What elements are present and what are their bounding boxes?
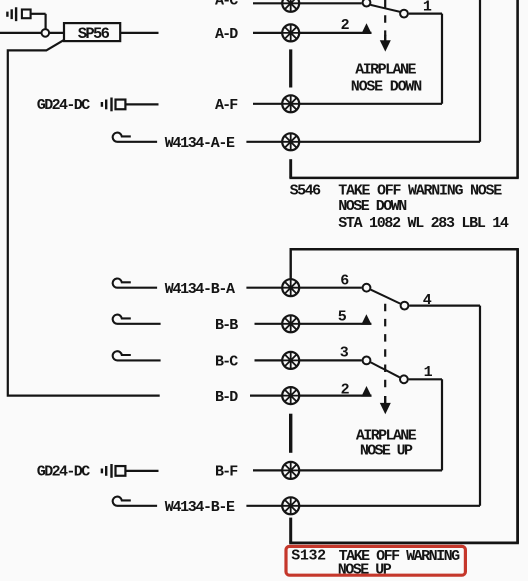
- svg-text:NOSE DOWN: NOSE DOWN: [338, 198, 407, 215]
- svg-text:B-D: B-D: [215, 389, 238, 406]
- svg-text:A-C: A-C: [215, 0, 238, 9]
- svg-text:B-B: B-B: [215, 317, 238, 334]
- svg-text:B-F: B-F: [215, 464, 238, 481]
- svg-text:S132: S132: [291, 548, 326, 565]
- svg-text:W4134-B-A: W4134-B-A: [165, 281, 235, 298]
- svg-text:TAKE OFF WARNING NOSE: TAKE OFF WARNING NOSE: [338, 183, 502, 200]
- svg-text:W4134-B-E: W4134-B-E: [165, 499, 235, 516]
- svg-text:AIRPLANE: AIRPLANE: [355, 62, 416, 79]
- svg-text:GD24-DC: GD24-DC: [37, 464, 90, 481]
- svg-text:NOSE UP: NOSE UP: [338, 562, 392, 579]
- svg-text:STA 1082 WL 283 LBL 14: STA 1082 WL 283 LBL 14: [338, 215, 509, 232]
- svg-text:A-F: A-F: [215, 97, 238, 114]
- svg-text:B-C: B-C: [215, 354, 238, 371]
- svg-text:NOSE DOWN: NOSE DOWN: [351, 78, 422, 95]
- svg-text:SP56: SP56: [78, 25, 110, 43]
- svg-text:GD24-DC: GD24-DC: [37, 97, 90, 114]
- svg-text:A-D: A-D: [215, 26, 238, 43]
- svg-text:S546: S546: [290, 183, 322, 200]
- svg-text:W4134-A-E: W4134-A-E: [165, 135, 235, 152]
- svg-text:NOSE UP: NOSE UP: [360, 443, 413, 460]
